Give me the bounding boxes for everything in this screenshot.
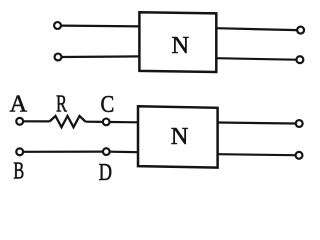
terminal circle bottom-right upper [296, 120, 303, 127]
svg-text:A: A [9, 91, 27, 118]
wire from resistor R to node C [86, 121, 103, 123]
wire bottom-right upper [218, 123, 296, 124]
terminal circle top-left upper [54, 22, 61, 29]
terminal circle top-right upper [297, 27, 304, 34]
wire from terminal B to node D [24, 151, 103, 153]
wire top-right upper [216, 28, 297, 30]
wire top-right lower [216, 58, 296, 60]
wire from terminal A to resistor R [24, 120, 50, 122]
wire bottom-right lower [218, 154, 295, 155]
two-port network box N (bottom) [138, 106, 218, 167]
terminal circle top-left lower [55, 54, 62, 61]
terminal circle B [16, 148, 23, 155]
terminal circle A [16, 118, 23, 125]
terminal circle bottom-right lower [296, 152, 303, 159]
two-port network box N (top) [139, 12, 216, 72]
node circle C [103, 119, 110, 126]
svg-text:D: D [99, 159, 112, 186]
svg-text:C: C [101, 91, 115, 118]
wire from node C to box (bottom network) [110, 121, 138, 124]
resistor R zigzag [50, 116, 86, 127]
wire from node D to box (bottom network) [110, 151, 138, 154]
wire top-left lower [62, 55, 140, 58]
svg-text:N: N [171, 32, 189, 59]
svg-text:N: N [171, 123, 189, 150]
svg-text:R: R [56, 91, 67, 118]
terminal circle top-right lower [296, 56, 303, 63]
node circle D [103, 148, 110, 155]
svg-text:B: B [13, 158, 24, 185]
wire top-left upper [62, 25, 140, 28]
